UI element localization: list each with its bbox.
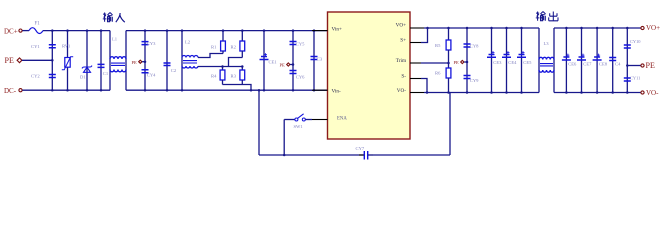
capacitor C3 (313, 31, 315, 91)
resistor R5 (448, 28, 450, 40)
capacitor CE4 electrolytic (506, 28, 508, 93)
wire ground link right riser (449, 93, 451, 156)
wire VO+ stub (410, 27, 424, 29)
resistor R3 (241, 67, 243, 71)
svg-text:CE8: CE8 (599, 61, 608, 66)
wire VO+ rail (424, 27, 539, 29)
wire PE lead (22, 59, 52, 61)
svg-text:SW1: SW1 (294, 124, 304, 129)
wire S+ stub and riser (410, 42, 421, 44)
node VO- terminal (641, 91, 644, 94)
diode D1 TVS (86, 31, 88, 91)
svg-text:CE3: CE3 (493, 60, 502, 65)
svg-text:L3: L3 (544, 41, 550, 46)
svg-text:CY10: CY10 (630, 39, 641, 44)
text output title (536, 12, 546, 21)
wire DC+ rail (43, 30, 110, 32)
wire R2 branch riser (229, 58, 243, 67)
varistor RV1 (67, 31, 69, 91)
svg-text:CY4: CY4 (147, 73, 156, 78)
svg-text:PE: PE (280, 63, 286, 68)
capacitor C1 (100, 31, 102, 91)
wire Vin- stub (312, 89, 328, 91)
wire ENA stub (305, 119, 312, 121)
svg-text:Vin-: Vin- (332, 88, 341, 94)
svg-text:PE: PE (132, 60, 138, 65)
svg-text:CY3: CY3 (147, 41, 156, 46)
capacitor CY10 (626, 28, 628, 66)
svg-text:PE: PE (454, 60, 460, 65)
capacitor CY9 (466, 62, 468, 93)
inductor L3 common-mode choke (538, 28, 540, 93)
svg-text:CY9: CY9 (470, 78, 479, 83)
wire S- stub and riser (410, 78, 421, 80)
svg-text:R6: R6 (435, 71, 441, 76)
svg-text:CY1: CY1 (31, 44, 40, 49)
wire DC+ rail left (22, 30, 29, 32)
resistor R4 (222, 67, 224, 71)
resistor R2 (241, 31, 243, 41)
svg-text:VO-: VO- (646, 89, 659, 97)
svg-text:R1: R1 (211, 45, 217, 50)
wire L2 bottom output jog (198, 66, 242, 68)
svg-text:CE7: CE7 (583, 61, 592, 66)
node VO+ terminal (641, 26, 644, 29)
wire ground link bottom right (368, 154, 450, 156)
svg-text:R2: R2 (231, 45, 237, 50)
capacitor C4 (612, 28, 614, 93)
svg-text:S+: S+ (400, 37, 406, 43)
capacitor CY8 (466, 28, 468, 62)
svg-text:Trim: Trim (396, 58, 406, 64)
resistor R1 (222, 31, 224, 41)
svg-text:S-: S- (401, 73, 406, 79)
wire VO- stub (410, 92, 424, 94)
inductor L1 common-mode choke (109, 31, 111, 91)
svg-text:PE: PE (5, 56, 14, 65)
capacitor CY5 (292, 31, 294, 65)
capacitor CE6 electrolytic (565, 28, 567, 93)
svg-text:ENA: ENA (337, 116, 347, 121)
svg-text:R4: R4 (211, 74, 217, 79)
svg-text:R5: R5 (435, 43, 441, 48)
wire R4 R3 bottom link to rail (223, 85, 252, 91)
capacitor CE1 electrolytic (263, 31, 265, 91)
svg-text:CE6: CE6 (568, 61, 577, 66)
svg-text:R3: R3 (231, 74, 237, 79)
svg-text:VO-: VO- (397, 88, 406, 94)
capacitor CY7 (359, 154, 364, 156)
capacitor CY6 (292, 65, 294, 91)
capacitor CE7 electrolytic (581, 28, 583, 93)
wire Vin+ stub (312, 30, 328, 32)
op-amp U1 DC-DC converter module (328, 12, 411, 139)
svg-text:C2: C2 (171, 68, 177, 73)
wire VO- rail (424, 92, 539, 94)
svg-text:C3: C3 (317, 57, 323, 62)
capacitor CY4 (144, 62, 146, 90)
svg-text:CE4: CE4 (508, 60, 517, 65)
svg-text:CY6: CY6 (296, 74, 305, 79)
capacitor CE8 electrolytic (596, 28, 598, 93)
wire DC- rail (22, 89, 110, 91)
svg-text:PE: PE (646, 61, 655, 70)
capacitor CE5 electrolytic (521, 28, 523, 93)
svg-text:CY2: CY2 (31, 74, 40, 79)
wire Trim stub (410, 62, 421, 64)
wire SW1 riser (283, 120, 285, 156)
svg-text:Vin+: Vin+ (332, 27, 342, 33)
capacitor CY11 (626, 66, 628, 93)
svg-text:DC-: DC- (4, 87, 17, 95)
svg-text:CY11: CY11 (630, 76, 640, 81)
svg-text:L2: L2 (185, 40, 191, 45)
wire PE output lead (627, 65, 640, 67)
svg-text:L1: L1 (112, 37, 118, 42)
wire mid bottom rail (126, 89, 328, 91)
wire ground link left riser (258, 90, 260, 155)
capacitor CY1 (51, 31, 53, 61)
svg-text:RV1: RV1 (62, 44, 71, 49)
wire L2 top output jog (198, 54, 223, 58)
capacitor C2 (166, 31, 168, 91)
svg-text:D1: D1 (80, 75, 86, 80)
svg-text:CE5: CE5 (523, 60, 532, 65)
svg-text:VO+: VO+ (646, 24, 660, 32)
switch SW1 (284, 119, 295, 121)
capacitor CE3 electrolytic (491, 28, 493, 93)
fuse F1 (29, 28, 43, 34)
inductor L2 common-mode choke (181, 31, 183, 91)
svg-text:CY8: CY8 (470, 44, 479, 49)
capacitor CY2 (51, 60, 53, 90)
svg-text:C4: C4 (615, 61, 621, 66)
svg-text:CY5: CY5 (296, 42, 305, 47)
capacitor CY3 (144, 31, 146, 62)
svg-text:CE1: CE1 (269, 60, 278, 65)
node PE output terminal (641, 64, 644, 67)
resistor R6 (448, 63, 450, 68)
svg-text:DC+: DC+ (4, 28, 18, 36)
text input title (103, 13, 113, 22)
svg-text:C1: C1 (103, 71, 109, 76)
wire mid top rail (126, 30, 328, 32)
svg-text:CY7: CY7 (356, 146, 365, 151)
wire ground link bottom (259, 154, 364, 156)
svg-text:F1: F1 (35, 22, 41, 27)
svg-text:VO+: VO+ (396, 23, 406, 29)
